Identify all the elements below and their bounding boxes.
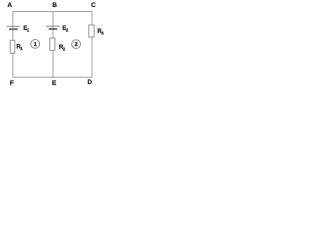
node A (7, 2, 12, 9)
svg-text:B: B (52, 2, 57, 9)
loop label 1 (31, 40, 40, 49)
label R3 (97, 29, 104, 36)
resistor R1 (10, 40, 15, 53)
node D (88, 79, 93, 86)
svg-text:D: D (88, 79, 93, 86)
resistor R3 (89, 25, 94, 37)
loop label 2 (72, 40, 81, 49)
wire bottom F-E-D (13, 76, 93, 78)
battery E1 (7, 26, 21, 29)
wire left branch A-F (12, 11, 14, 77)
wire right branch C-D (91, 11, 93, 77)
label E2 (62, 26, 69, 33)
svg-text:C: C (91, 2, 96, 9)
svg-text:E: E (52, 80, 57, 87)
node B (52, 2, 57, 9)
node E (52, 80, 57, 87)
label E1 (23, 26, 30, 33)
label R1 (16, 45, 23, 52)
label R2 (59, 45, 66, 52)
node C (91, 2, 96, 9)
resistor R2 (50, 38, 55, 50)
node F (10, 80, 14, 87)
wire middle branch B-E (52, 12, 54, 78)
svg-text:A: A (7, 2, 12, 9)
wire top A-B-C (13, 11, 93, 13)
svg-text:F: F (10, 80, 14, 87)
battery E2 (46, 26, 60, 29)
svg-text:2: 2 (74, 42, 77, 48)
